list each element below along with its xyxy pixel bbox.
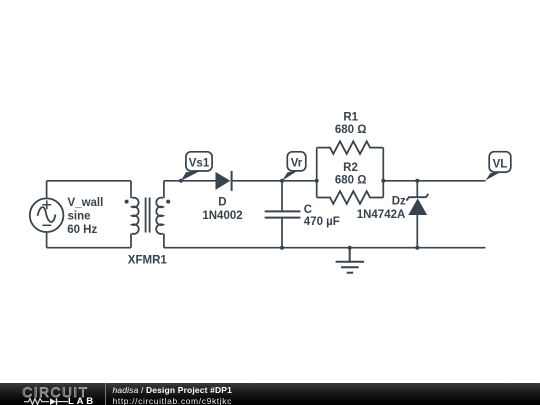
flag VL xyxy=(486,152,511,181)
svg-text:sine: sine xyxy=(68,211,91,223)
svg-text:Dz: Dz xyxy=(392,195,406,207)
zener diode Dz bar xyxy=(406,194,428,201)
node R-parallel right junction dot xyxy=(381,179,385,183)
wire bottom rail primary xyxy=(47,247,131,249)
node R-parallel left junction dot xyxy=(315,179,319,183)
footer url text xyxy=(113,396,233,405)
wire top rail primary xyxy=(47,180,131,182)
wire primary left vertical top xyxy=(130,181,132,198)
footer logo squiggle resistor and diode xyxy=(23,397,69,405)
wire diode to resistor box xyxy=(232,180,317,182)
voltage source V_wall circle xyxy=(30,198,64,232)
wire R-box to VL flag xyxy=(383,180,485,182)
wire top rail secondary to diode xyxy=(164,180,216,182)
wire capacitor bottom branch xyxy=(281,219,283,248)
svg-text:R1: R1 xyxy=(343,111,358,123)
transformer primary polarity dot xyxy=(125,200,129,204)
footer title text xyxy=(113,385,233,395)
node ground junction dot xyxy=(348,246,352,250)
transformer core lines xyxy=(146,198,150,233)
node Vr junction dot xyxy=(280,179,284,183)
svg-text:C: C xyxy=(304,204,312,216)
svg-text:680 Ω: 680 Ω xyxy=(335,175,367,187)
svg-text:1N4002: 1N4002 xyxy=(202,210,242,222)
svg-text:R2: R2 xyxy=(343,162,358,174)
svg-text:V_wall: V_wall xyxy=(68,197,104,209)
svg-text:1N4742A: 1N4742A xyxy=(357,209,406,221)
svg-text:60 Hz: 60 Hz xyxy=(67,224,97,236)
wire secondary right vertical top xyxy=(163,181,165,198)
wire source bottom stub xyxy=(46,232,48,248)
diode D cathode bar xyxy=(231,171,233,191)
wire zener bottom branch xyxy=(416,215,418,248)
svg-text:VL: VL xyxy=(493,158,508,170)
footer logo LAB xyxy=(68,396,96,405)
ground symbol xyxy=(336,248,365,273)
node zener junction dot xyxy=(415,179,419,183)
capacitor C bottom plate xyxy=(265,217,301,219)
wire primary left vertical bottom xyxy=(130,234,132,248)
footer separator line xyxy=(105,383,106,405)
resistor R2 xyxy=(317,191,384,204)
capacitor C top plate xyxy=(265,210,301,212)
resistor R1 xyxy=(317,141,384,154)
voltage source plus sign xyxy=(42,200,51,209)
footer bar xyxy=(0,383,540,405)
svg-text:680 Ω: 680 Ω xyxy=(335,124,367,136)
wire R-box left vertical xyxy=(316,148,318,198)
wire zener top branch xyxy=(416,181,418,197)
wire secondary right vertical bottom xyxy=(163,234,165,248)
svg-text:470 µF: 470 µF xyxy=(304,216,340,228)
node capacitor bottom junction dot xyxy=(280,246,284,250)
flag Vr xyxy=(282,152,306,181)
svg-text:Vr: Vr xyxy=(291,158,303,170)
transformer XFMR1 secondary winding xyxy=(156,198,163,234)
node zener bottom junction dot xyxy=(415,246,419,250)
zener diode Dz triangle xyxy=(408,198,427,215)
diode D triangle xyxy=(216,172,231,190)
svg-text:D: D xyxy=(218,196,226,208)
wire source top stub xyxy=(46,181,48,199)
voltage source minus sign xyxy=(42,224,51,226)
svg-text:Vs1: Vs1 xyxy=(189,158,210,170)
voltage source sine wave xyxy=(38,207,56,222)
flag Vs1 xyxy=(181,152,212,181)
transformer XFMR1 primary winding xyxy=(132,198,139,234)
footer logo CIRCUIT xyxy=(22,385,88,400)
wire bottom rail secondary xyxy=(164,247,486,249)
wire R-box right vertical xyxy=(382,148,384,198)
wire capacitor top branch xyxy=(281,181,283,211)
node Vs1 junction dot xyxy=(179,179,183,183)
transformer secondary polarity dot xyxy=(166,200,170,204)
svg-text:XFMR1: XFMR1 xyxy=(128,254,168,266)
